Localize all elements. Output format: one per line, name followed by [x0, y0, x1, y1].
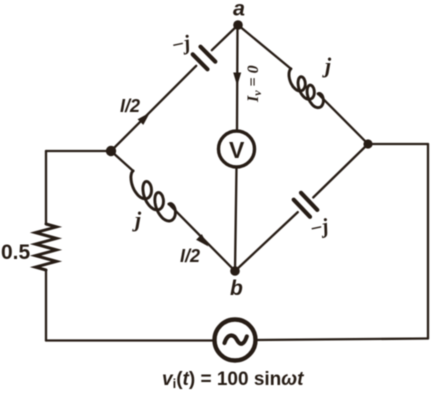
svg-text:b: b: [230, 277, 243, 300]
svg-text:a: a: [233, 0, 245, 21]
wire: top-right inductor to right node: [318, 94, 368, 144]
capacitor C1 (-j) top-left plates: [193, 47, 216, 70]
svg-text:j: j: [132, 207, 142, 232]
wire: left node to left rail: [46, 150, 111, 152]
wire: bottom-right capacitor to node b: [235, 212, 298, 271]
wire: voltmeter to node b: [235, 167, 237, 271]
wire: bottom rail left of source: [46, 339, 215, 341]
svg-text:0.5: 0.5: [1, 241, 31, 264]
resistor R1 0.5 zigzag: [36, 224, 57, 270]
AC source V1 tilde: [225, 335, 247, 343]
arrow: Iv current down center branch: [233, 73, 241, 87]
wire: right rail: [427, 144, 429, 339]
wire: node a to top-right inductor: [238, 25, 291, 69]
svg-text:I/2: I/2: [120, 96, 140, 116]
wire: right node to bottom-right capacitor: [313, 144, 368, 198]
svg-text:vi(t) = 100 sinωt: vi(t) = 100 sinωt: [162, 369, 304, 391]
svg-text:−j: −j: [308, 213, 331, 240]
wire: node a to top-left capacitor: [212, 25, 238, 50]
AC source V1 circle: [215, 320, 256, 361]
svg-text:I/2: I/2: [180, 246, 200, 266]
arrow: I/2 bottom-left branch toward b: [196, 234, 208, 246]
inductor L2 (j) bottom-left coil: [131, 171, 176, 221]
voltmeter U1 circle: [219, 131, 255, 167]
wire: left rail lower segment: [45, 270, 47, 341]
wire: top-left capacitor to left node: [111, 66, 196, 151]
wire: left node to bottom-left inductor: [111, 151, 133, 171]
node b junction dot: [230, 266, 240, 276]
node a junction dot: [233, 20, 243, 30]
svg-text:j: j: [322, 53, 332, 78]
svg-text:Iv = 0: Iv = 0: [245, 65, 264, 103]
svg-text:−j: −j: [169, 30, 192, 57]
wire: bottom rail right of source: [256, 339, 429, 341]
arrow: I/2 top-left branch toward a: [138, 113, 150, 125]
wire: right node to right rail: [368, 143, 428, 145]
svg-text:V: V: [229, 137, 245, 163]
capacitor C2 (-j) bottom-right plates: [294, 193, 318, 217]
left node junction dot: [106, 146, 116, 156]
wire: node a down to voltmeter: [236, 25, 239, 131]
wire: left rail upper segment: [45, 151, 47, 224]
right node junction dot: [363, 139, 372, 148]
inductor L1 (j) top-right coil: [289, 69, 323, 108]
wire: bottom-left inductor to node b: [169, 204, 235, 271]
